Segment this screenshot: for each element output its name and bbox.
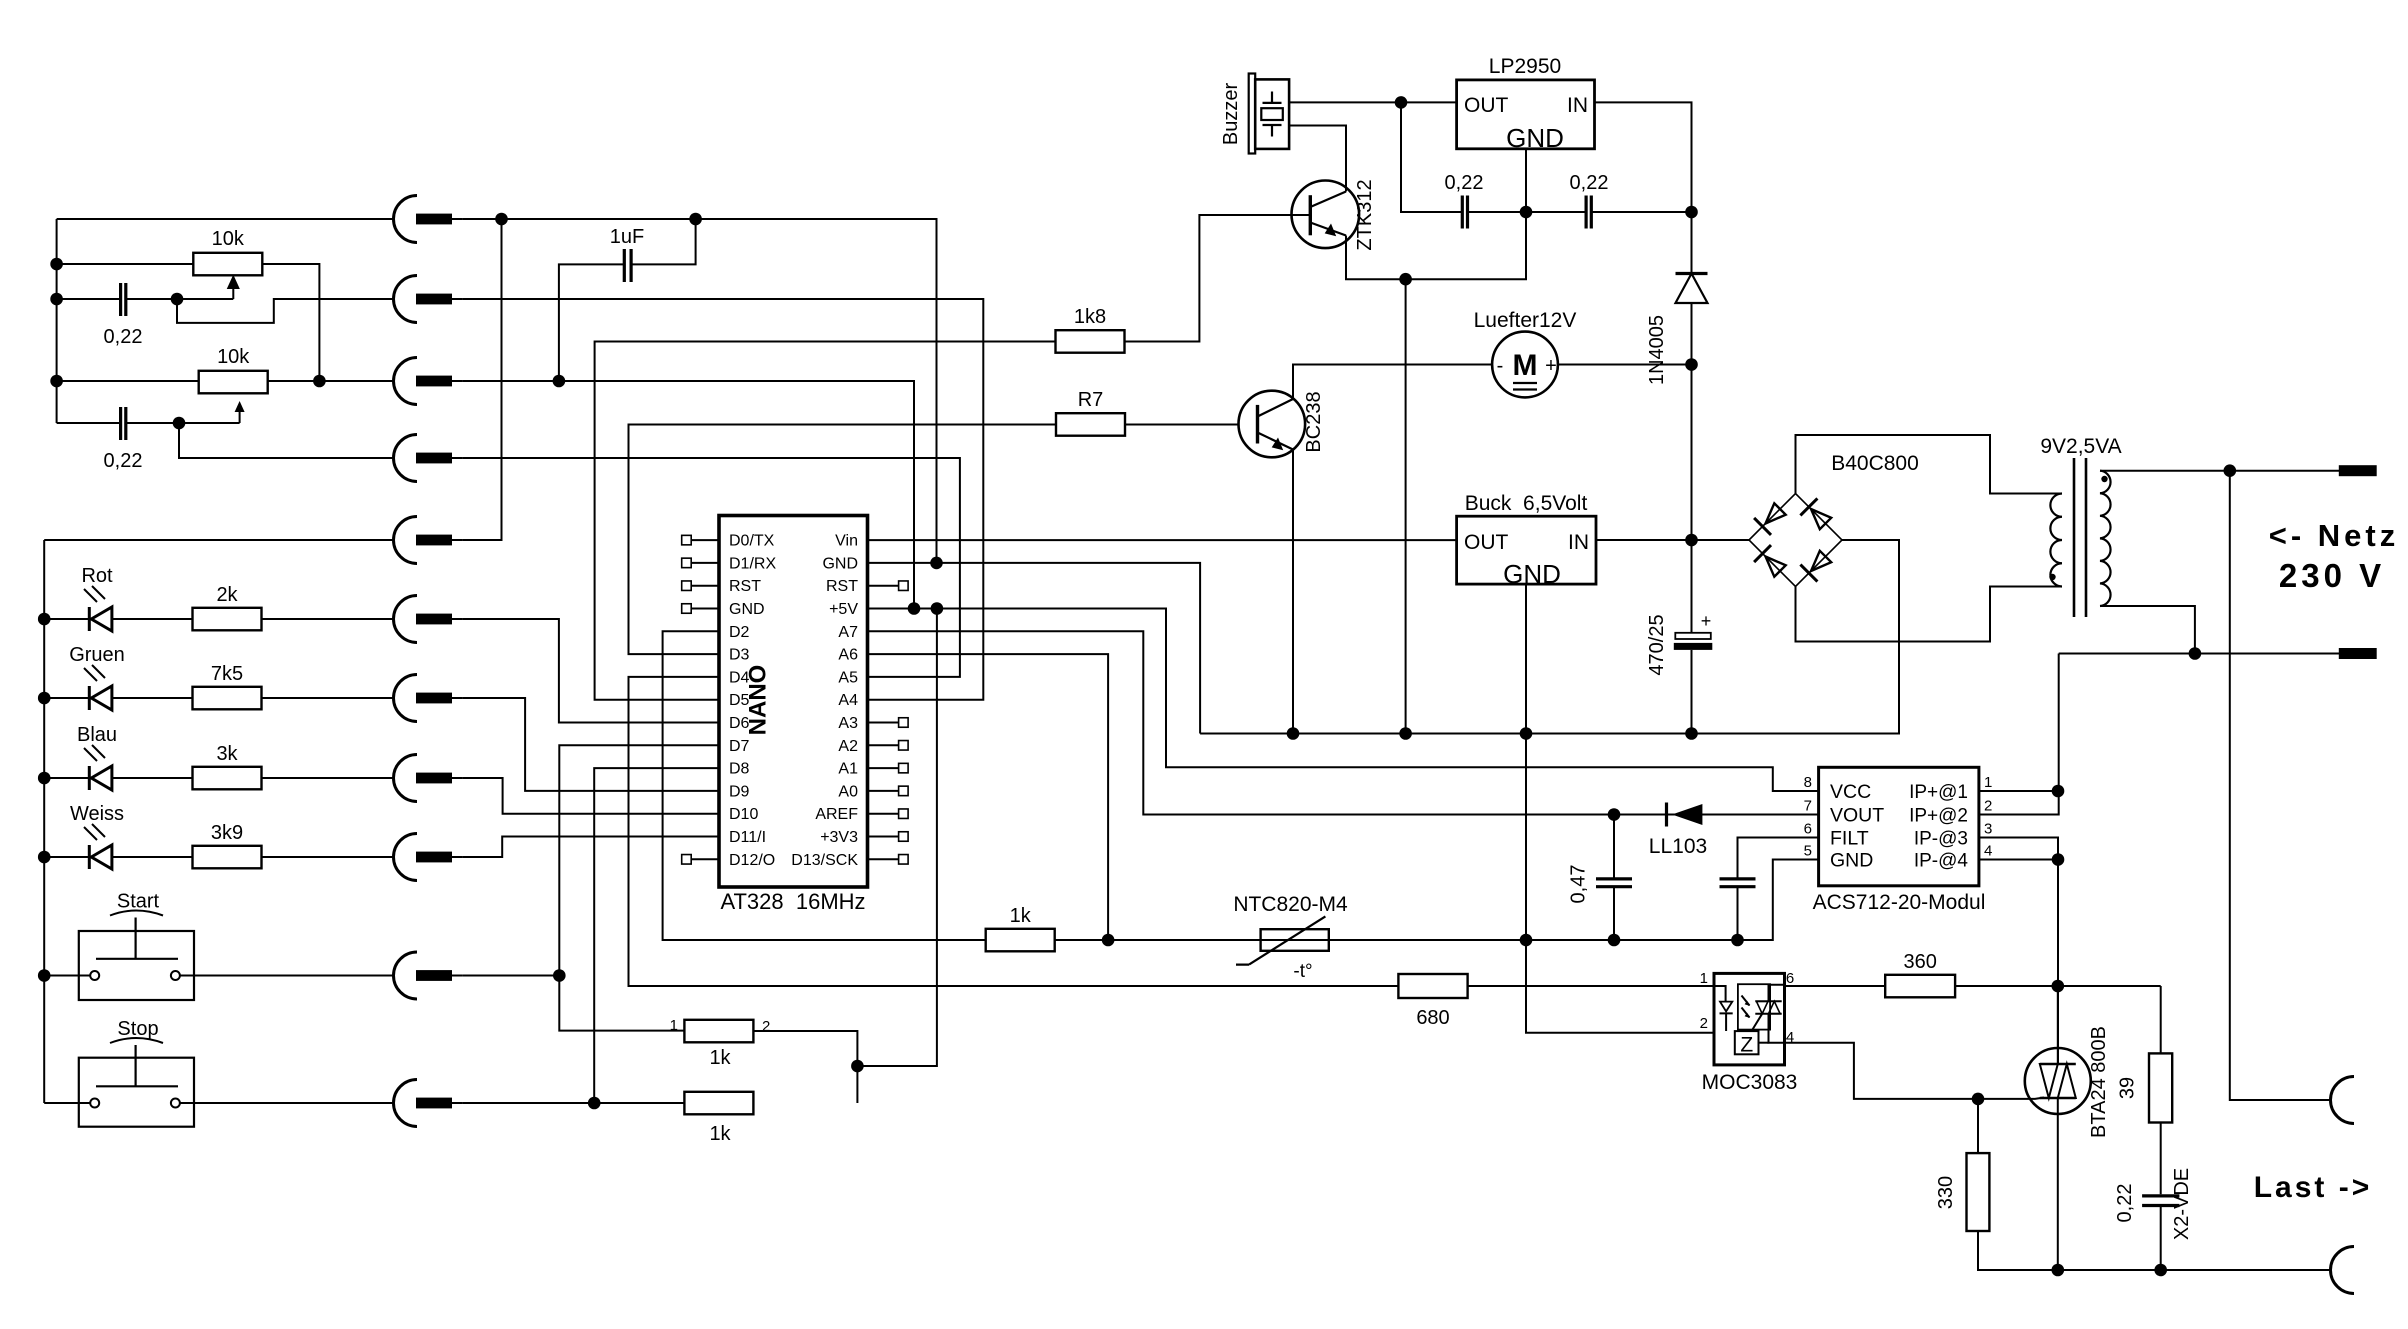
wire NANO left stub GND — [691, 608, 719, 610]
junction NTC row / 0,47 — [1608, 934, 1621, 947]
wire 1uF left leg — [559, 264, 624, 381]
bridge diode top-left — [1754, 503, 1786, 535]
wire Gruen to D9 — [463, 698, 719, 791]
wire LED Blau to resistor — [112, 777, 193, 779]
svg-text:1: 1 — [670, 1017, 678, 1034]
wire LED Gruen anode wire — [44, 697, 89, 699]
svg-text:9V2,5VA: 9V2,5VA — [2040, 435, 2121, 458]
svg-text:IN: IN — [1568, 531, 1589, 554]
wire 1k8 to ZTK312 base — [1125, 215, 1310, 342]
wire Netz bottom row — [2059, 653, 2339, 655]
transformer T1 9V2,5VA — [2049, 458, 2110, 617]
wire 330 top — [1977, 1099, 1979, 1153]
svg-text:1k8: 1k8 — [1074, 306, 1106, 328]
wire BC238 emitter to GND bus — [1292, 450, 1294, 734]
wire bus to Start — [44, 975, 90, 977]
svg-text:D10: D10 — [729, 806, 758, 823]
wire ACS pin1 wire — [1979, 790, 2059, 792]
wire A7 to LL103/VOUT — [868, 631, 1819, 814]
wire triac main upper — [2057, 986, 2059, 1064]
potentiometer P1 wiper arrow — [228, 277, 238, 299]
junction wiper1 node — [171, 293, 184, 306]
wire 470u bottom to GND bus — [1691, 650, 1693, 734]
connector K6 Rot (jack symbol) — [394, 596, 463, 643]
resistor R 3k9 — [193, 846, 262, 869]
svg-text:ZTK312: ZTK312 — [1354, 179, 1376, 250]
svg-text:Blau: Blau — [77, 724, 117, 746]
svg-text:OUT: OUT — [1464, 94, 1509, 117]
wire bus to Stop — [44, 1102, 90, 1104]
wire Stop to connector — [180, 1102, 394, 1104]
junction NTC row / filter cap — [1731, 934, 1744, 947]
terminal Netz L — [2339, 465, 2377, 476]
wire A6 to NTC node — [868, 654, 1109, 940]
svg-text:+: + — [1545, 355, 1557, 377]
svg-text:RST: RST — [729, 578, 761, 595]
svg-text:ACS712-20-Modul: ACS712-20-Modul — [1813, 891, 1986, 914]
wire FILT wire — [1738, 838, 1819, 878]
svg-text:Buzzer: Buzzer — [1220, 83, 1242, 146]
wire pot bus left — [56, 219, 58, 423]
svg-text:IN: IN — [1567, 94, 1588, 117]
pin square RST right — [899, 581, 909, 591]
junction Last row / X2 cap — [2154, 1264, 2167, 1277]
junction row C / 1uF riser — [553, 375, 566, 388]
svg-text:5: 5 — [1804, 843, 1812, 860]
svg-text:1uF: 1uF — [610, 226, 644, 248]
svg-text:D8: D8 — [729, 761, 750, 778]
bridge diode bottom-right — [1800, 551, 1831, 582]
wire NANO right stub A1 — [868, 767, 899, 769]
svg-text:470/25: 470/25 — [1646, 614, 1668, 675]
transistor Q2 BC238 — [1239, 391, 1306, 458]
wire NANO right stub A0 — [868, 790, 899, 792]
wire NANO right stub +3V3 — [868, 836, 899, 838]
motor M1 Luefter12V — [1492, 332, 1558, 398]
junction bus / LED Weiss — [38, 851, 51, 864]
connector K8 Blau (jack symbol) — [394, 755, 463, 802]
MOC3083 internal triac — [1752, 985, 1785, 1043]
connector K10 Start (jack symbol) — [394, 952, 463, 999]
pin square A2 right — [899, 741, 909, 751]
svg-text:3: 3 — [1984, 821, 1992, 838]
junction NTC / A6 — [1102, 934, 1115, 947]
wire cap1 left — [57, 298, 121, 300]
pin square A0 right — [899, 786, 909, 796]
svg-text:230 V: 230 V — [2279, 557, 2385, 594]
svg-text:330: 330 — [1935, 1176, 1957, 1209]
svg-text:7k5: 7k5 — [211, 663, 243, 685]
wire D8 riser to Stop — [594, 768, 719, 1103]
thermistor NTC820-M4 — [1236, 916, 1329, 964]
svg-text:+3V3: +3V3 — [820, 829, 858, 846]
wire ZTK collector to buzzer — [1289, 126, 1346, 192]
junction row A / row E riser — [495, 213, 508, 226]
svg-text:<- Netz: <- Netz — [2269, 518, 2400, 553]
wire fan to 1N4005 node — [1558, 364, 1692, 366]
connector K2 (jack symbol) — [394, 276, 463, 323]
wire IP+ tie (Netz to pins 1,2) — [1979, 654, 2059, 815]
junction +5V pin a — [908, 602, 921, 615]
diode D1 1N4005 — [1676, 274, 1708, 304]
wire 1k pullups to +5V — [754, 609, 937, 1104]
svg-text:Gruen: Gruen — [69, 644, 125, 666]
wire cap2 to wiper node — [126, 422, 240, 424]
svg-text:LP2950: LP2950 — [1489, 55, 1561, 78]
wire triac main lower — [2057, 1098, 2059, 1270]
resistor pot P1 10k body — [193, 253, 262, 275]
LED Rot — [84, 586, 112, 631]
wire BC238 collector to fan — [1293, 365, 1492, 400]
triac Q3 BTA24 800B — [2025, 1048, 2091, 1114]
svg-text:R7: R7 — [1078, 389, 1104, 411]
svg-text:LL103: LL103 — [1649, 835, 1707, 858]
wire NANO right stub A2 — [868, 744, 899, 746]
svg-text:+: + — [1701, 611, 1712, 631]
junction gate / 330 — [1972, 1093, 1985, 1106]
wire NANO left stub D1/RX — [691, 562, 719, 564]
svg-text:Z: Z — [1740, 1034, 1753, 1057]
svg-text:B40C800: B40C800 — [1831, 452, 1919, 475]
wire Weiss to D11 — [463, 837, 719, 858]
svg-text:D2: D2 — [729, 624, 750, 641]
svg-text:NTC820-M4: NTC820-M4 — [1233, 893, 1348, 916]
wire NANO left stub RST — [691, 585, 719, 587]
wire ACS pin3 wire — [1979, 838, 2058, 1065]
svg-text:A7: A7 — [838, 624, 858, 641]
junction emitter node / GND riser — [1399, 273, 1412, 286]
svg-text:AREF: AREF — [815, 806, 858, 823]
junction 360 / triac A2 node — [2052, 980, 2065, 993]
junction buzzer/LP2950 OUT node — [1395, 96, 1408, 109]
wire LED/button common bus — [43, 540, 45, 1103]
svg-text:VOUT: VOUT — [1830, 805, 1884, 827]
terminal Last upper arc — [2331, 1077, 2355, 1124]
junction IN/caps node — [1685, 206, 1698, 219]
resistor R 1k (Start pull-up) — [684, 1020, 753, 1043]
regulator U3 Buck 6,5Volt — [1457, 516, 1596, 584]
wire secondary top to Netz — [2100, 470, 2339, 472]
junction GND bus / ZTK — [1399, 727, 1412, 740]
junction bus / LED Blau — [38, 772, 51, 785]
wire +5V row to ACS VCC — [868, 609, 1819, 792]
wire pot P2 left — [57, 380, 199, 382]
LED Weiss — [84, 824, 112, 869]
junction GND bus / BC238 — [1287, 727, 1300, 740]
wire LED Rot to resistor — [112, 618, 193, 620]
svg-text:0,22: 0,22 — [1445, 172, 1484, 194]
junction +5V pin b — [931, 602, 944, 615]
svg-text:2: 2 — [1984, 798, 1992, 815]
wire cap1 to wiper node — [126, 298, 234, 300]
svg-text:X2-VDE: X2-VDE — [2171, 1168, 2193, 1240]
svg-text:Stop: Stop — [117, 1018, 158, 1040]
transistor Q1 ZTK312 — [1292, 181, 1360, 249]
svg-text:7: 7 — [1804, 798, 1812, 815]
svg-text:GND: GND — [1830, 850, 1873, 872]
capacitor 1uF — [624, 249, 631, 282]
wire LED Blau resistor to connector — [262, 777, 394, 779]
svg-text:GND: GND — [1506, 123, 1564, 153]
wire LED Weiss to resistor — [112, 856, 193, 858]
svg-text:VCC: VCC — [1830, 781, 1871, 803]
resistor R 3k — [193, 767, 262, 790]
junction wiper2 node — [173, 417, 186, 430]
capacitor C filter (FILT) — [1720, 879, 1756, 887]
wire GND row to GND bus — [868, 563, 1201, 734]
svg-text:1: 1 — [1984, 774, 1992, 791]
svg-text:GND: GND — [1503, 559, 1561, 589]
wire NANO right stub D13/SCK — [868, 858, 899, 860]
wire emitter node to GND bus — [1405, 279, 1407, 733]
wire Vin to Buck OUT — [868, 539, 1457, 541]
wire LED Gruen resistor to connector — [262, 697, 394, 699]
regulator U2 LP2950 — [1457, 80, 1595, 149]
wire Netz to Last direct — [2230, 471, 2331, 1100]
svg-text:A0: A0 — [838, 783, 858, 800]
svg-text:A1: A1 — [838, 761, 858, 778]
svg-text:Weiss: Weiss — [70, 803, 124, 825]
wire row A left — [57, 218, 394, 220]
wire LED Gruen to resistor — [112, 697, 193, 699]
svg-text:10k: 10k — [212, 228, 245, 250]
resistor R 1k (Stop pull-up) — [684, 1092, 753, 1115]
wire caps row middle — [1468, 211, 1587, 213]
wire cap2 left — [57, 422, 121, 424]
wire LED Weiss resistor to connector — [262, 856, 394, 858]
svg-text:0,47: 0,47 — [1568, 865, 1590, 904]
wire D7 riser to Start/1k — [559, 745, 719, 1030]
capacitor C6 0,22 X2-VDE — [2142, 1196, 2179, 1206]
svg-text:Buck 6,5Volt: Buck 6,5Volt — [1465, 492, 1588, 515]
MOC3083 light arrows — [1742, 996, 1750, 1018]
svg-text:D9: D9 — [729, 783, 750, 800]
module U4 ACS712-20 — [1819, 767, 1979, 886]
capacitor C 0,47 — [1596, 879, 1632, 887]
svg-text:1k: 1k — [709, 1123, 731, 1145]
junction Start / D7 — [553, 969, 566, 982]
connector K4 (jack symbol) — [394, 435, 463, 482]
LED Blau — [84, 745, 112, 790]
wire row B detour — [177, 299, 394, 323]
svg-text:0,22: 0,22 — [104, 326, 143, 348]
buzzer BZ1 — [1249, 74, 1289, 154]
junction pullup node — [851, 1060, 864, 1073]
wire NANO right stub AREF — [868, 813, 899, 815]
pin square D1/RX left — [682, 558, 692, 568]
svg-text:BC238: BC238 — [1303, 391, 1325, 452]
junction GND bus / 470u — [1685, 727, 1698, 740]
pin square D0/TX left — [682, 535, 692, 545]
wire bridge minus + GND bus — [1200, 540, 1899, 734]
potentiometer P2 wiper arrow — [239, 404, 241, 423]
capacitor C 0,22 (LP out) — [1462, 196, 1467, 229]
wire NANO left stub D12/O — [691, 858, 719, 860]
wire NANO right stub RST — [868, 585, 899, 587]
junction NTC row / Buck GND riser — [1520, 934, 1533, 947]
wire Blau to D10 — [463, 778, 719, 814]
junction fan node — [1685, 358, 1698, 371]
wire D5 to 1k8 — [595, 342, 1055, 700]
wire Buck IN to bridge — [1596, 539, 1749, 541]
svg-text:IP-@4: IP-@4 — [1914, 851, 1969, 872]
wire row E riser — [463, 219, 502, 540]
microcontroller U1 AT328 NANO — [719, 516, 868, 888]
svg-text:A6: A6 — [838, 647, 858, 664]
wire pot P1 right to row C riser — [262, 264, 319, 381]
wire LED Weiss anode wire — [44, 856, 89, 858]
svg-text:Last ->: Last -> — [2254, 1171, 2373, 1204]
wire row E left — [44, 539, 393, 541]
diode D2 LL103 — [1667, 803, 1703, 827]
junction Netz top node — [2224, 464, 2237, 477]
wire row D left — [179, 423, 394, 458]
wire LED Rot resistor to connector — [262, 618, 394, 620]
wire 0,47 top stem — [1613, 815, 1615, 878]
junction Last row / triac — [2052, 1264, 2065, 1277]
svg-text:A3: A3 — [838, 715, 858, 732]
svg-text:680: 680 — [1416, 1007, 1449, 1029]
svg-text:D0/TX: D0/TX — [729, 533, 775, 550]
svg-text:M: M — [1513, 349, 1538, 382]
wire bridge AC top — [1796, 435, 2063, 494]
svg-text:GND: GND — [729, 601, 765, 618]
wire Buck GND to MOC pin2 — [1526, 584, 1714, 1033]
svg-text:+5V: +5V — [829, 601, 858, 618]
connector K7 Gruen (jack symbol) — [394, 675, 463, 722]
wire Rot to D6 — [463, 619, 719, 723]
capacitor C 0,22 (LP in) — [1586, 196, 1591, 229]
junction pot bus / cap1 — [50, 293, 63, 306]
junction IP- node — [2052, 853, 2065, 866]
junction Buck IN node — [1685, 534, 1698, 547]
svg-text:2: 2 — [1700, 1015, 1708, 1032]
svg-text:1N4005: 1N4005 — [1646, 315, 1668, 385]
wire secondary bottom — [2100, 606, 2195, 654]
wire filter cap bottom stem — [1737, 888, 1739, 940]
svg-text:2k: 2k — [216, 584, 238, 606]
wire 360 to triac gate node — [1955, 985, 2161, 987]
junction GND bus / Buck GND — [1520, 727, 1533, 740]
resistor R 680 — [1398, 974, 1467, 998]
svg-text:1k: 1k — [709, 1047, 731, 1069]
terminal Last lower arc — [2331, 1247, 2355, 1294]
wire row C left — [268, 380, 394, 382]
svg-text:360: 360 — [1904, 951, 1937, 973]
wire 1N4005 cathode-側 vertical — [1691, 303, 1693, 633]
svg-text:Start: Start — [117, 891, 160, 913]
connector K5 (jack symbol) — [394, 517, 463, 564]
junction VOUT / 0,47 — [1608, 808, 1621, 821]
wire NANO right stub A3 — [868, 722, 899, 724]
wire NANO left stub D0/TX — [691, 539, 719, 541]
junction bus / Start — [38, 969, 51, 982]
bridge rectifier B40C800 — [1749, 494, 1842, 587]
wire LED Blau anode wire — [44, 777, 89, 779]
resistor R 39 — [2149, 1053, 2172, 1122]
svg-text:MOC3083: MOC3083 — [1702, 1071, 1798, 1094]
svg-text:10k: 10k — [217, 346, 250, 368]
connector K3 (jack symbol) — [394, 358, 463, 405]
wire 1uF right leg — [631, 219, 696, 264]
wire LED Rot anode wire — [44, 618, 89, 620]
wire 680 to MOC pin1 — [1468, 985, 1715, 987]
MOC3083 internal frame — [1738, 984, 1770, 1029]
junction pot bus / P2 — [50, 375, 63, 388]
svg-text:6: 6 — [1786, 970, 1794, 987]
pin square RST left — [682, 581, 692, 591]
wire R7 to BC238 base — [1125, 424, 1239, 426]
resistor R R7 — [1056, 413, 1125, 436]
terminal Netz N — [2339, 648, 2377, 659]
wire 330 bottom to Last row — [1978, 1231, 2331, 1270]
wire row C to +5V — [463, 381, 914, 609]
wire caps row right — [1591, 211, 1691, 213]
svg-text:Vin: Vin — [835, 533, 858, 550]
pin square GND left — [682, 604, 692, 614]
resistor R 330 — [1967, 1153, 1990, 1231]
junction bus / LED Rot — [38, 613, 51, 626]
wire D3 to R7 — [629, 425, 1057, 655]
svg-text:-: - — [1497, 355, 1504, 377]
optocoupler U5 MOC3083 — [1714, 973, 1785, 1065]
svg-text:1k: 1k — [1010, 905, 1032, 927]
svg-text:D3: D3 — [729, 647, 750, 664]
svg-text:2: 2 — [762, 1018, 770, 1035]
junction Stop / D8 — [588, 1097, 601, 1110]
svg-text:8: 8 — [1804, 774, 1812, 791]
LED Gruen — [84, 665, 112, 710]
wire row A (GND) to NANO GND — [463, 219, 937, 563]
wire ACS pin4 wire — [1979, 859, 2058, 861]
connector K11 Stop (jack symbol) — [394, 1080, 463, 1127]
resistor R 1k8 — [1056, 330, 1125, 353]
svg-text:D1/RX: D1/RX — [729, 555, 776, 572]
wire ZTK emitter to GND node — [1346, 149, 1526, 279]
junction P1-P2 link — [313, 375, 326, 388]
resistor pot P2 10k body — [199, 371, 268, 394]
resistor R 360 — [1885, 975, 1955, 998]
svg-text:A2: A2 — [838, 738, 858, 755]
bridge diode bottom-left — [1754, 545, 1786, 577]
junction pot bus / P1 — [50, 258, 63, 271]
connector K9 Weiss (jack symbol) — [394, 834, 463, 881]
svg-text:39: 39 — [2117, 1077, 2139, 1099]
svg-text:6: 6 — [1804, 821, 1812, 838]
wire bridge AC bottom — [1796, 587, 2063, 642]
switch Stop — [79, 1038, 194, 1127]
svg-text:3k: 3k — [216, 743, 238, 765]
capacitor C 0,22 (pot1) — [121, 283, 126, 316]
svg-text:0,22: 0,22 — [104, 450, 143, 472]
bridge diode top-right — [1800, 498, 1831, 529]
svg-text:A4: A4 — [838, 692, 858, 709]
svg-text:D12/O: D12/O — [729, 852, 775, 869]
switch Start — [79, 911, 194, 1001]
junction Netz bottom node — [2189, 647, 2202, 660]
wire Start to connector — [463, 975, 560, 977]
junction IP+ node — [2052, 785, 2065, 798]
pin square A1 right — [899, 763, 909, 773]
wire D2 to 1k — [663, 631, 987, 940]
wire MOC pin6 to 360 — [1785, 985, 1886, 987]
wire NTC row — [1054, 860, 1819, 941]
svg-text:-t°: -t° — [1293, 961, 1312, 982]
connector K1 (jack symbol) — [394, 196, 463, 243]
resistor R 2k — [193, 608, 262, 631]
wire 39 top — [2160, 986, 2162, 1053]
svg-text:IP+@1: IP+@1 — [1909, 782, 1968, 803]
